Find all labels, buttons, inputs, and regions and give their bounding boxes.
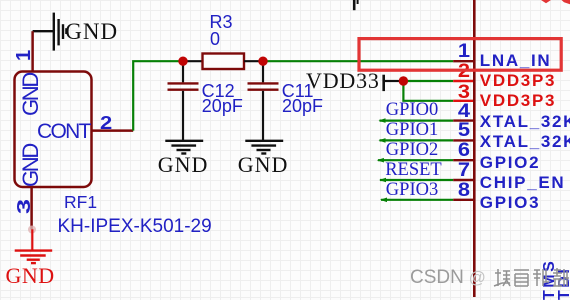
pin number 2 of U1 xyxy=(436,62,471,81)
value 0 (R3) xyxy=(210,30,220,48)
net label TDI (rotated, bottom-right) xyxy=(557,267,570,300)
wire GPIO0 to pin4 xyxy=(379,118,454,123)
connector U1 body edge (vertical) xyxy=(473,0,476,297)
no-ERC marker on pin 3 xyxy=(28,226,36,234)
pin number 2 of RF1 xyxy=(100,114,112,132)
net label GPIO3 xyxy=(386,181,438,200)
pin name VDD3P3 (pin2) xyxy=(480,72,556,89)
label GND (top-left ground) xyxy=(65,20,118,43)
pin 2 of RF1 xyxy=(93,129,134,132)
pin name CHIP_EN xyxy=(480,174,566,191)
wire GPIO3 to pin8 xyxy=(380,198,453,203)
wire CONT vertical segment xyxy=(133,61,183,130)
junction node A (left of R3) xyxy=(178,57,187,66)
pin 7 stub of U1 header xyxy=(453,179,474,181)
connector RF1 body xyxy=(15,72,92,188)
selection highlight rectangle xyxy=(359,39,561,71)
wire VDD33 to junction xyxy=(385,80,401,82)
pin number 1 of U1 xyxy=(436,42,471,61)
pin number 4 of U1 xyxy=(436,102,471,121)
pin number 8 of U1 xyxy=(436,181,471,200)
pin 1 of RF1 xyxy=(31,31,34,70)
wire junction down to pin3 row xyxy=(403,81,453,101)
wire from RF1 pin3 to GND xyxy=(31,229,33,250)
pin number 3 of U1 xyxy=(436,83,471,102)
net label GPIO2 xyxy=(386,141,438,160)
junction node B (right of R3) xyxy=(258,57,267,66)
wire junction to pin2 stub xyxy=(403,80,453,82)
red fragment top corner 1 xyxy=(541,0,551,3)
ground power symbol G4 (under C11) xyxy=(245,141,283,154)
pin name GPIO3 xyxy=(480,194,540,211)
net label RESET xyxy=(385,161,442,180)
ground power symbol G2 (red, bottom-left) xyxy=(15,251,53,264)
wire RESET to pin7 xyxy=(379,178,453,183)
pin name GND (RF1 top, rotated) xyxy=(20,74,42,116)
net label GPIO0 xyxy=(386,101,438,120)
value 20pF (C12) xyxy=(202,97,243,115)
designator C11 xyxy=(282,82,314,100)
resistor R3 body xyxy=(203,54,245,70)
label GND (under C12) xyxy=(158,154,209,176)
capacitor C11 xyxy=(248,61,279,140)
pin number 1 of RF1 (rotated) xyxy=(14,49,34,60)
wire R3 right to junction xyxy=(244,60,263,62)
wire junction right to pin1 stub xyxy=(263,60,453,62)
ground power symbol G3 (under C12) xyxy=(165,141,203,154)
pin name VDD3P3 (pin3) xyxy=(480,92,556,109)
power port label VDD33 xyxy=(306,70,380,92)
designator R3 xyxy=(210,13,233,31)
pin 2 stub of U1 header xyxy=(453,80,474,82)
designator C12 xyxy=(202,82,235,100)
pin name XTAL_32K_P xyxy=(480,113,570,130)
junction node VDD33 xyxy=(399,76,408,85)
pin 6 stub of U1 header xyxy=(453,159,474,161)
pin number 3 of RF1 (rotated) xyxy=(15,198,33,213)
wire junction to R3 left xyxy=(183,60,203,62)
pin 8 stub of U1 header xyxy=(453,199,474,201)
red fragment top corner 2 xyxy=(562,0,570,4)
wire GPIO2 to pin6 xyxy=(377,158,453,163)
pin 1 stub of U1 header xyxy=(453,60,474,62)
watermark CSDN xyxy=(410,268,486,287)
designator RF1 xyxy=(64,194,97,212)
comment KH-IPEX-K501-29 xyxy=(58,217,212,236)
net label TMS (rotated, bottom-right) xyxy=(542,259,558,300)
pin 3 stub of U1 header xyxy=(453,100,474,102)
pin number 7 of U1 xyxy=(436,161,471,180)
pin name GND (RF1 bottom, rotated) xyxy=(20,145,42,187)
label GND (red, bottom-left) xyxy=(6,265,55,287)
pin name GPIO2 xyxy=(480,154,540,171)
label GND (under C11) xyxy=(238,154,289,176)
pin 5 stub of U1 header xyxy=(453,139,474,141)
value 20pF (C11) xyxy=(282,97,323,115)
watermark glyphs xyxy=(493,266,570,290)
net label GPIO1 xyxy=(386,121,438,140)
pin number 5 of U1 xyxy=(436,121,471,140)
ground power symbol G1 (rotated, top-left) xyxy=(33,13,67,51)
pin number 6 of U1 xyxy=(436,141,471,160)
pin 4 stub of U1 header xyxy=(453,119,474,121)
power symbol fragment (clipped, top) xyxy=(354,0,357,10)
power port VDD33 bar xyxy=(382,75,385,91)
pin 3 of RF1 xyxy=(30,188,33,229)
pin name CONT (RF1) xyxy=(37,121,90,142)
pin name XTAL_32K_N xyxy=(480,133,570,150)
capacitor C12 xyxy=(168,61,199,140)
pin name LNA_IN xyxy=(480,52,552,69)
wire GPIO1 to pin5 xyxy=(379,138,454,143)
